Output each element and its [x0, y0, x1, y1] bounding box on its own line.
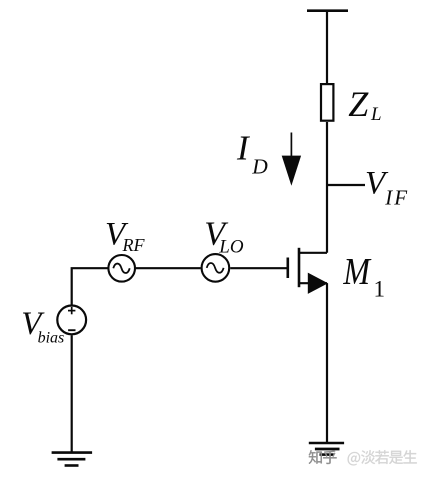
wire source to ground — [326, 283, 328, 443]
wire Vbias corner to VRF — [72, 268, 108, 305]
transistor M1 channel bar — [298, 248, 301, 287]
watermark zhihu — [309, 450, 337, 464]
svg-text:LO: LO — [218, 237, 244, 258]
watermark char 若 — [375, 450, 389, 464]
watermark char 淡 — [361, 450, 375, 464]
Vbias plus sign — [68, 307, 75, 314]
transistor M1 drain lead — [299, 252, 327, 254]
wire ZL to drain corner — [326, 122, 328, 253]
Vbias minus sign — [68, 329, 75, 331]
wire VRF to VLO — [136, 267, 201, 269]
source Vbias circle — [57, 306, 86, 335]
svg-text:RF: RF — [122, 235, 146, 255]
svg-text:IF: IF — [384, 186, 409, 210]
label VRF — [105, 217, 145, 256]
watermark char 是 — [389, 451, 403, 464]
ground left — [52, 453, 93, 466]
wire Vbias to ground — [71, 335, 73, 452]
source VRF sine — [113, 264, 129, 273]
svg-text:Z: Z — [348, 84, 369, 124]
power rail VDD top bar — [307, 9, 348, 12]
source VRF circle — [108, 255, 135, 282]
label ID — [236, 128, 268, 178]
label ZL — [348, 84, 381, 125]
wire VLO to gate — [230, 267, 288, 269]
impedance ZL box — [321, 84, 333, 121]
source VLO circle — [202, 254, 230, 282]
label M1 — [342, 249, 385, 301]
transistor M1 gate bar — [286, 258, 289, 279]
source VLO sine — [207, 263, 224, 273]
watermark char @ — [348, 452, 361, 465]
label Vbias — [21, 306, 64, 346]
svg-text:bias: bias — [38, 329, 65, 346]
label VLO — [204, 215, 244, 257]
current arrow ID — [282, 133, 301, 186]
svg-text:M: M — [342, 249, 372, 293]
svg-text:L: L — [370, 104, 382, 125]
svg-text:I: I — [236, 128, 251, 167]
watermark char 知 — [309, 450, 322, 464]
label VIF — [365, 166, 409, 210]
svg-text:D: D — [251, 154, 268, 178]
transistor M1 source arrow — [308, 273, 328, 294]
watermark char 生 — [403, 450, 416, 463]
transistor M1 source lead — [299, 282, 327, 284]
node VIF stub — [327, 184, 365, 186]
wire rail to ZL — [326, 11, 328, 84]
ground right — [309, 443, 344, 455]
svg-text:1: 1 — [374, 276, 386, 301]
watermark char 乎 — [323, 450, 336, 464]
